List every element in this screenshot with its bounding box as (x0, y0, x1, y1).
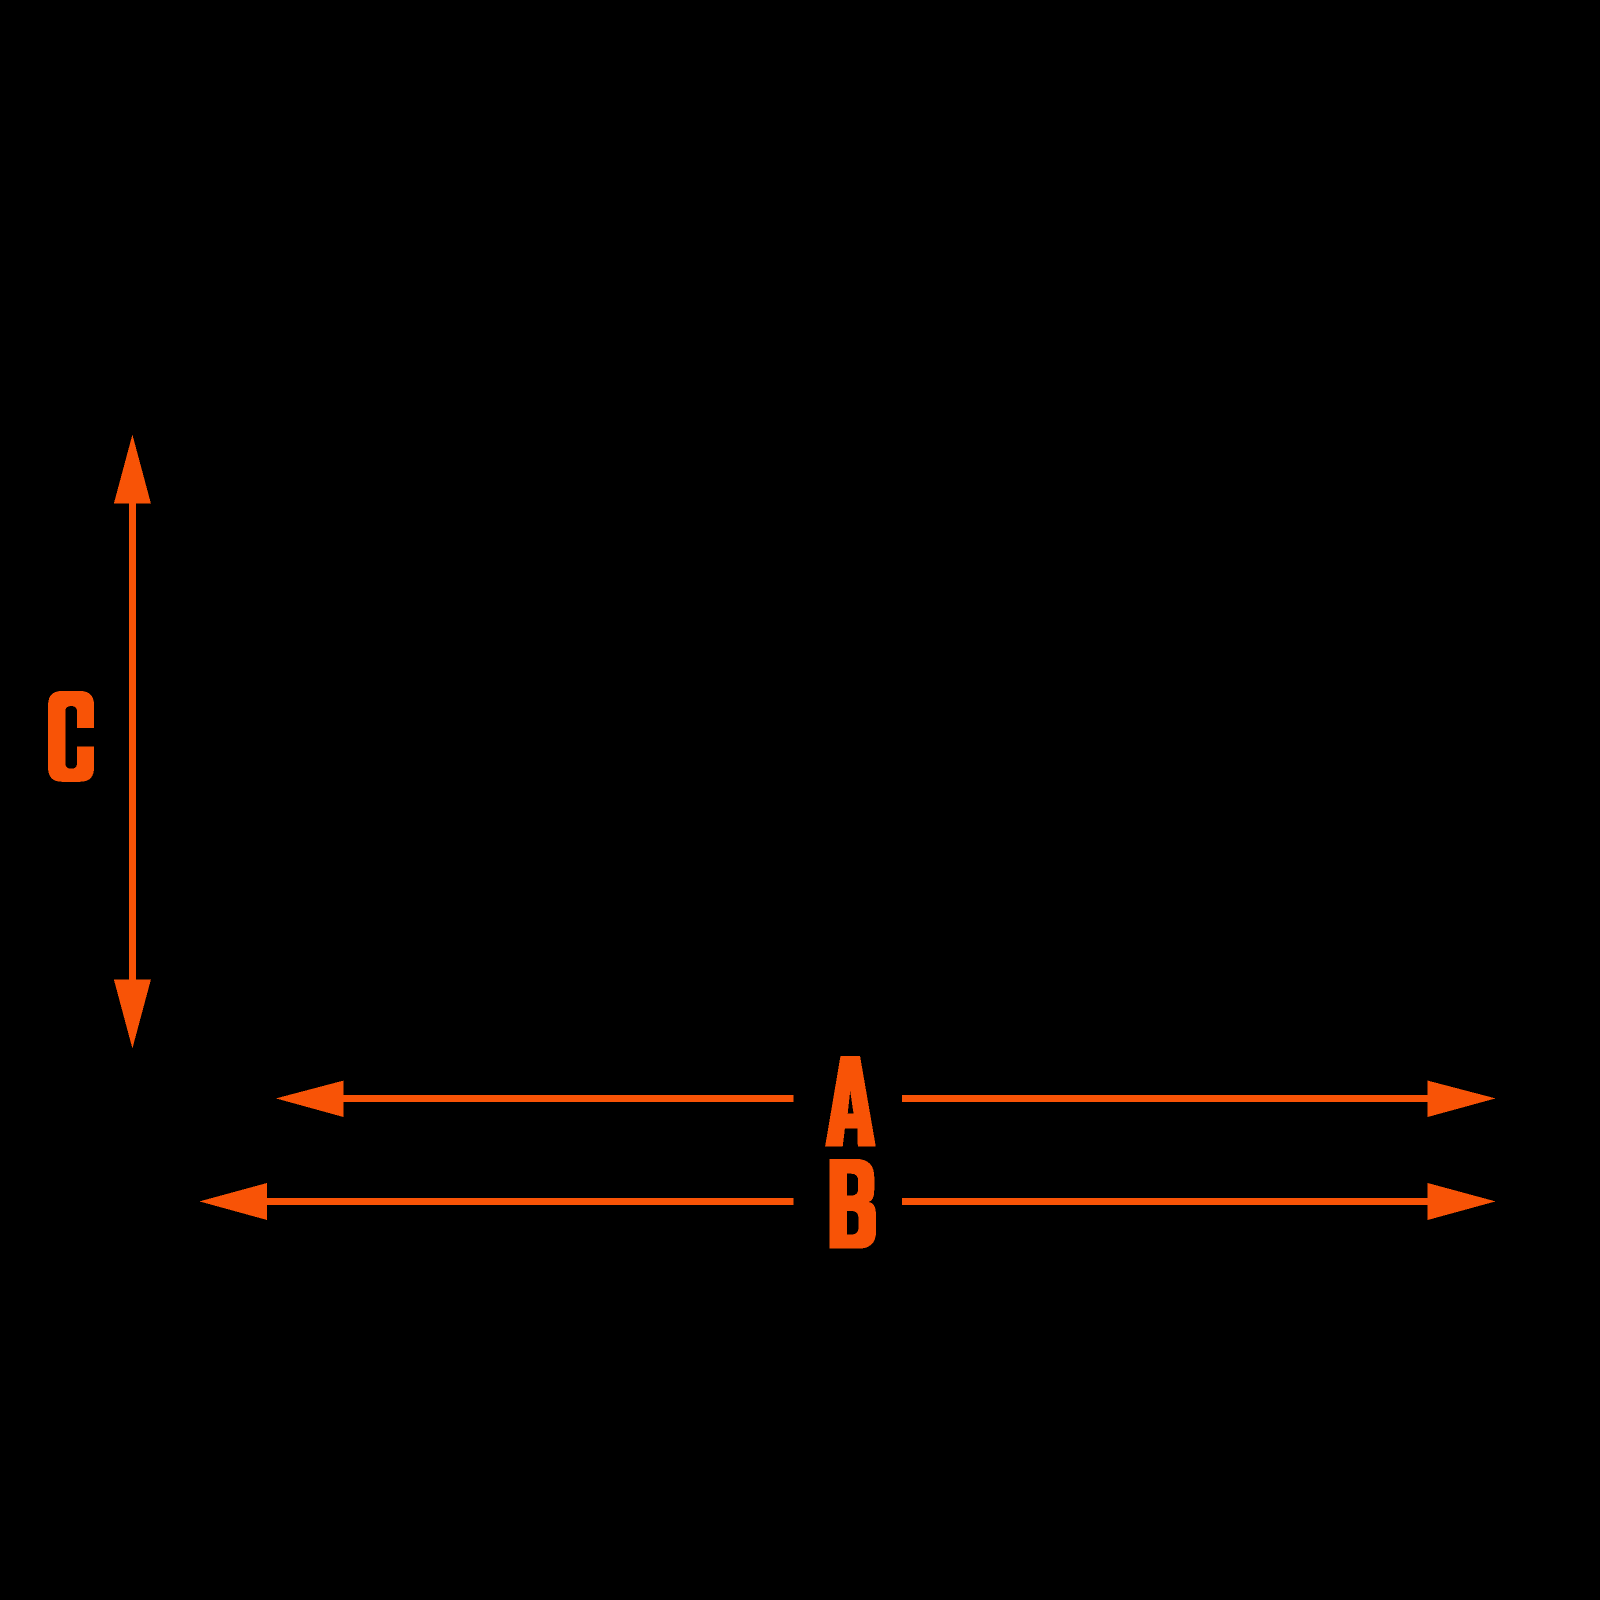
B right arrowhead (1428, 1183, 1496, 1220)
C top arrowhead (114, 435, 151, 504)
wire: A shaft left segment (342, 1095, 793, 1102)
C bottom arrowhead (114, 980, 151, 1049)
dimension arrow A (horizontal double-headed) (276, 1081, 1496, 1117)
A left arrowhead (276, 1081, 344, 1117)
label C (48, 691, 94, 782)
wire: B shaft left segment (266, 1198, 794, 1205)
label B (830, 1159, 876, 1249)
dimension arrow B (horizontal double-headed) (199, 1183, 1495, 1220)
label A (825, 1056, 876, 1147)
wire: C shaft (129, 502, 136, 980)
wire: B shaft right segment (902, 1198, 1428, 1205)
A right arrowhead (1428, 1081, 1496, 1117)
wire: A shaft right segment (902, 1095, 1428, 1102)
dimension arrow C (vertical double-headed) (114, 435, 151, 1049)
B left arrowhead (199, 1183, 267, 1220)
